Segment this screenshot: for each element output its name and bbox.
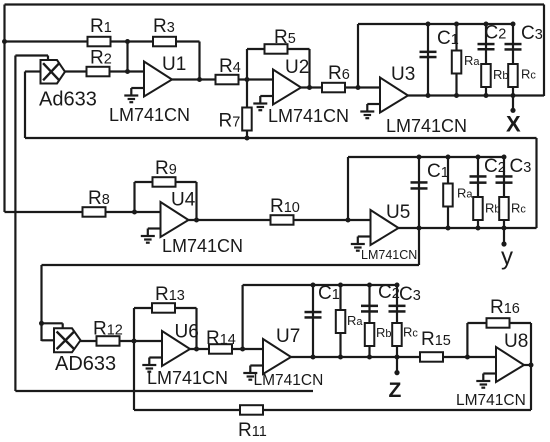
svg-text:C3: C3 — [510, 156, 532, 177]
svg-text:Rc: Rc — [403, 325, 418, 340]
svg-text:Ra: Ra — [347, 313, 363, 328]
svg-text:C3: C3 — [399, 284, 421, 305]
svg-text:LM741CN: LM741CN — [268, 106, 349, 126]
svg-text:R5: R5 — [274, 27, 296, 48]
svg-text:Rb: Rb — [376, 325, 392, 340]
svg-text:U5: U5 — [386, 202, 410, 223]
svg-text:LM741CN: LM741CN — [456, 392, 526, 409]
svg-text:R9: R9 — [155, 158, 177, 179]
svg-text:U8: U8 — [504, 331, 528, 352]
svg-text:Rb: Rb — [485, 201, 501, 216]
svg-text:C2: C2 — [484, 156, 506, 177]
svg-text:LM741CN: LM741CN — [254, 372, 324, 389]
svg-text:C1: C1 — [318, 283, 340, 304]
svg-text:C2: C2 — [485, 23, 507, 44]
svg-text:R14: R14 — [206, 328, 236, 349]
svg-text:C1: C1 — [437, 28, 459, 49]
svg-text:R11: R11 — [238, 420, 267, 441]
svg-text:Ra: Ra — [464, 53, 480, 68]
svg-text:U7: U7 — [276, 326, 300, 347]
svg-text:U6: U6 — [175, 322, 199, 343]
svg-text:Rb: Rb — [493, 67, 509, 82]
svg-text:R16: R16 — [490, 297, 520, 318]
svg-text:R10: R10 — [270, 196, 300, 217]
svg-text:C1: C1 — [427, 161, 449, 182]
svg-text:LM741CN: LM741CN — [109, 105, 190, 125]
svg-text:C2: C2 — [378, 282, 400, 303]
svg-text:R13: R13 — [155, 284, 185, 305]
svg-text:U1: U1 — [162, 54, 186, 75]
svg-text:R2: R2 — [90, 48, 112, 69]
svg-text:Rc: Rc — [521, 67, 536, 82]
svg-text:U2: U2 — [285, 57, 309, 78]
svg-text:Ad633: Ad633 — [39, 89, 97, 111]
svg-text:U4: U4 — [171, 190, 196, 211]
svg-text:y: y — [501, 244, 513, 271]
svg-text:R7: R7 — [219, 111, 241, 132]
svg-text:LM741CN: LM741CN — [147, 368, 228, 388]
svg-text:U3: U3 — [391, 64, 415, 85]
svg-text:AD633: AD633 — [55, 353, 116, 375]
svg-text:R1: R1 — [90, 16, 112, 37]
svg-text:LM741CN: LM741CN — [162, 236, 243, 256]
svg-text:C3: C3 — [521, 23, 543, 44]
svg-text:R8: R8 — [88, 188, 110, 209]
svg-text:Rc: Rc — [511, 201, 526, 216]
svg-text:R3: R3 — [153, 16, 175, 37]
svg-text:X: X — [506, 112, 521, 137]
svg-text:Ra: Ra — [457, 186, 473, 201]
svg-text:LM741CN: LM741CN — [386, 116, 467, 136]
svg-text:R4: R4 — [219, 56, 241, 77]
svg-text:R15: R15 — [421, 329, 451, 350]
svg-text:R12: R12 — [93, 319, 123, 340]
svg-text:LM741CN: LM741CN — [361, 248, 417, 262]
svg-text:R6: R6 — [328, 63, 350, 84]
svg-text:Z: Z — [389, 379, 402, 402]
